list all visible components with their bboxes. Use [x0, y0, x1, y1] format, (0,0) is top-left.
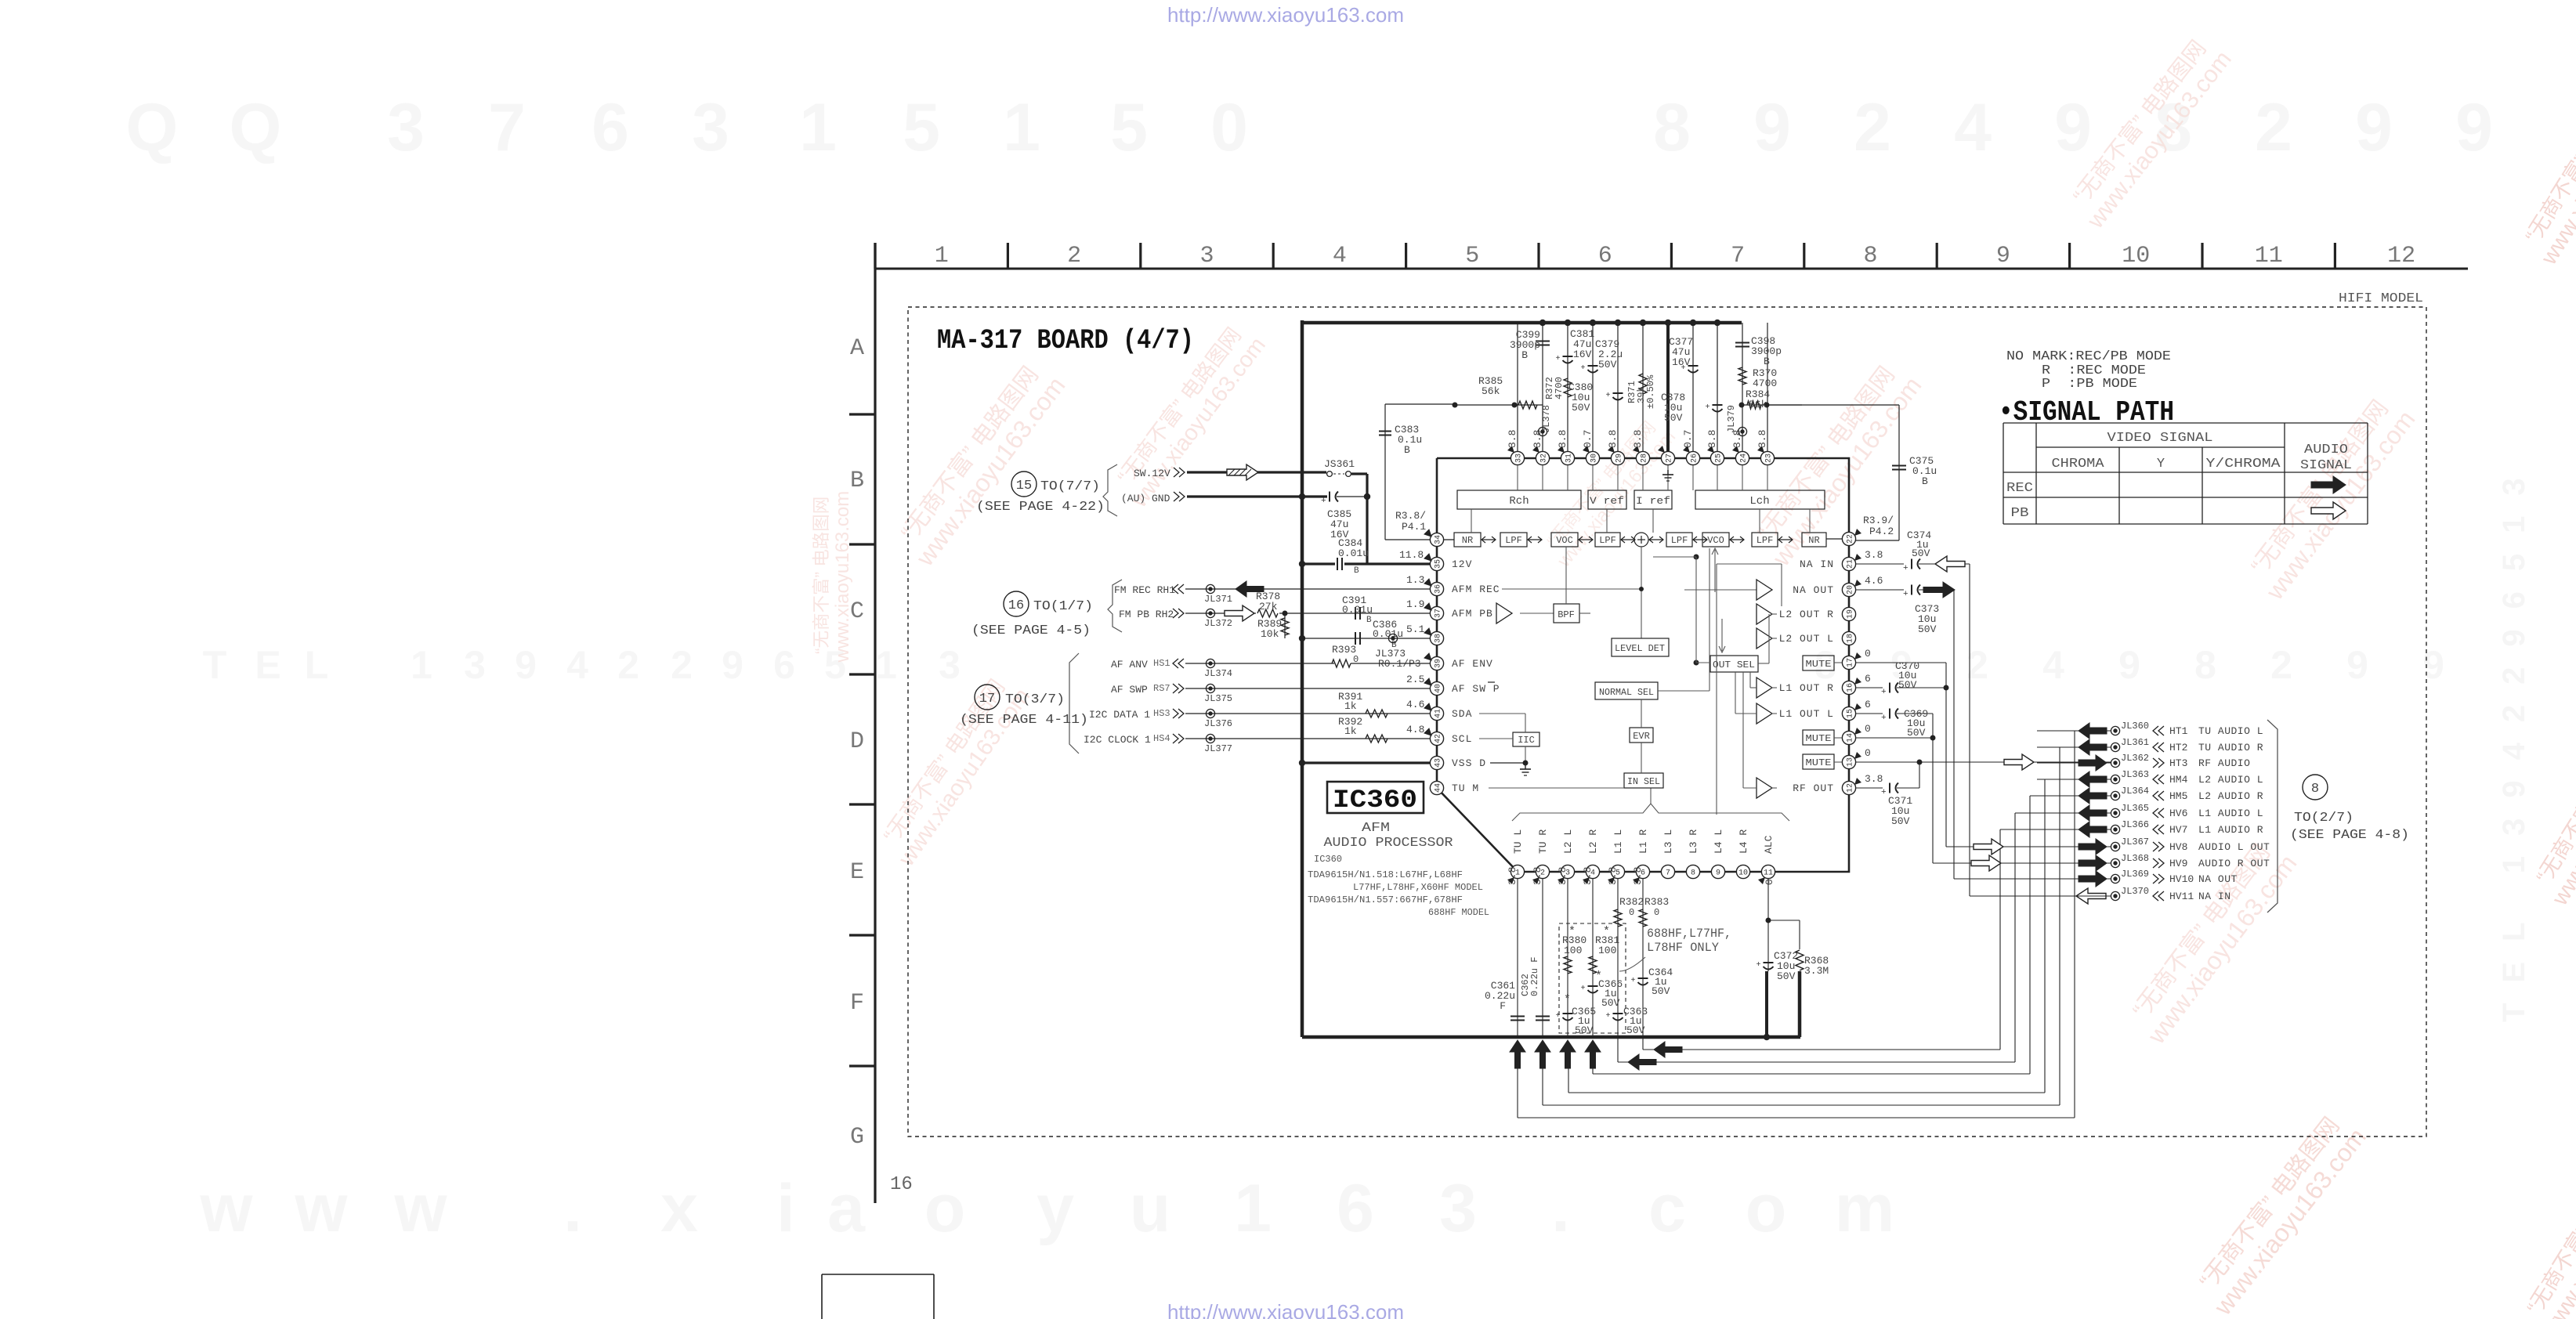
IIC ground: [1525, 746, 1526, 763]
svg-text:D: D: [850, 728, 864, 755]
group 15 circle: [1011, 472, 1037, 497]
svg-text:+: +: [1903, 564, 1908, 573]
svg-text:27k: 27k: [1259, 601, 1278, 613]
svg-text:27: 27: [1666, 454, 1674, 463]
svg-text:50V: 50V: [1572, 402, 1590, 414]
svg-text:100: 100: [1598, 945, 1616, 956]
long verticals NA paths: [1953, 590, 1955, 879]
svg-text:IC360: IC360: [1314, 854, 1342, 865]
svg-text:R3.8/: R3.8/: [1395, 510, 1426, 522]
resistor R368: [1796, 950, 1804, 970]
svg-text:HS4: HS4: [1153, 733, 1170, 744]
svg-text:Q: Q: [126, 90, 179, 165]
svg-text:0.7: 0.7: [1582, 430, 1594, 448]
OUT SEL box: [1710, 656, 1758, 672]
dashed border box: [908, 307, 2426, 1137]
svg-text:21: 21: [1847, 559, 1855, 569]
jack JL373: [1388, 634, 1397, 642]
svg-text:4700: 4700: [1753, 378, 1777, 389]
svg-text:R3.9/: R3.9/: [1863, 515, 1894, 526]
NR2 to pin22 wire: [1826, 538, 1842, 540]
svg-text:18: 18: [1847, 634, 1855, 643]
AFM REC wire: [1502, 588, 1641, 590]
svg-text:39: 39: [1435, 659, 1443, 668]
resistor R372: [1564, 378, 1572, 397]
svg-text:+: +: [1606, 392, 1611, 400]
svg-text:9: 9: [2455, 90, 2493, 165]
svg-text:*: *: [1603, 925, 1610, 938]
BPF to VOC vertical: [1565, 547, 1567, 604]
svg-text:P4.2: P4.2: [1869, 526, 1894, 537]
svg-text:16: 16: [1847, 683, 1855, 692]
svg-text:www.xiaoyu163.com: www.xiaoyu163.com: [832, 491, 853, 663]
svg-text:3.8: 3.8: [1706, 430, 1718, 448]
svg-text:+: +: [1581, 364, 1586, 373]
capacitor C379: [1588, 365, 1598, 367]
svg-text:B: B: [1922, 475, 1928, 487]
svg-text:14: 14: [1847, 733, 1855, 743]
svg-text:9: 9: [722, 643, 743, 687]
bundle wires from pins: [1643, 1049, 2000, 1050]
AFM PB amp: [1496, 603, 1512, 623]
svg-text:HS1: HS1: [1153, 658, 1170, 669]
EVR box: [1630, 728, 1653, 743]
svg-text:+: +: [1706, 403, 1710, 412]
connector JL370 NA IN: [2037, 895, 2111, 897]
resistor R384 row: [1742, 404, 1802, 406]
svg-text:R382: R382: [1619, 896, 1644, 908]
svg-text:0: 0: [1865, 747, 1871, 759]
svg-text:+: +: [1556, 355, 1561, 363]
svg-text:AF ENV: AF ENV: [1452, 658, 1493, 670]
svg-text:16V: 16V: [1672, 356, 1691, 368]
svg-text:OUT SEL: OUT SEL: [1713, 659, 1755, 670]
svg-text:FM REC RH1: FM REC RH1: [1114, 584, 1175, 596]
svg-text:SW.12V: SW.12V: [1134, 468, 1170, 479]
svg-text:AFM: AFM: [1362, 821, 1390, 836]
svg-text:42: 42: [1435, 734, 1443, 743]
svg-text:AFM REC: AFM REC: [1452, 584, 1500, 595]
svg-text:37: 37: [1435, 609, 1443, 618]
svg-text:NO MARK:REC/PB MODE: NO MARK:REC/PB MODE: [2006, 349, 2171, 364]
REC mode solid arrow: [2311, 476, 2346, 493]
svg-text:(SEE PAGE 4-8): (SEE PAGE 4-8): [2290, 828, 2409, 843]
svg-text:TDA9615H/N1.518:L67HF,L68HF: TDA9615H/N1.518:L67HF,L68HF: [1308, 869, 1463, 880]
NR to pin34 wire: [1444, 539, 1454, 540]
svg-text:NA IN: NA IN: [2198, 891, 2231, 902]
thick 12V feed to pin27: [1666, 323, 1670, 451]
IC360 power bus top: [1302, 321, 1742, 325]
AU GND thick wire: [1187, 495, 1327, 497]
svg-text:LEVEL DET: LEVEL DET: [1615, 643, 1665, 654]
pins 33-23 top row: [1511, 451, 1524, 464]
svg-text:19: 19: [1847, 609, 1855, 619]
svg-text:3.8: 3.8: [1557, 430, 1568, 448]
svg-text:3.8: 3.8: [1865, 773, 1883, 785]
bus junction dots: [1539, 320, 1546, 326]
Lch box: [1695, 490, 1825, 509]
svg-text:TO(7/7): TO(7/7): [1040, 479, 1100, 494]
connector JL365 L1 AUDIO L: [2037, 812, 2111, 814]
svg-text:B: B: [1521, 349, 1528, 361]
svg-text:3.8: 3.8: [1507, 430, 1518, 448]
svg-text:HV6: HV6: [2169, 808, 2187, 819]
thin verticals top bank: [1517, 323, 1518, 451]
svg-text:L78HF ONLY: L78HF ONLY: [1647, 941, 1719, 955]
svg-text:17: 17: [979, 692, 995, 706]
svg-text:AF SWP: AF SWP: [1111, 684, 1148, 696]
JL row feeder stubs: [2000, 829, 2111, 830]
svg-text:50V: 50V: [1664, 412, 1683, 424]
svg-text:MUTE: MUTE: [1806, 733, 1832, 744]
svg-text:9: 9: [2355, 90, 2393, 165]
svg-text:7: 7: [1731, 243, 1745, 269]
capacitor C375 branch: [1856, 540, 1899, 541]
svg-text:LPF: LPF: [1599, 535, 1616, 546]
svg-text:28: 28: [1641, 454, 1649, 463]
IC360 label box: [1327, 782, 1424, 813]
svg-text:688HF,L77HF,: 688HF,L77HF,: [1647, 927, 1731, 941]
svg-text:JL370: JL370: [2121, 886, 2149, 897]
mute row wires with caps: [1856, 662, 1946, 663]
svg-text:RF OUT: RF OUT: [1793, 782, 1834, 794]
svg-text:L3 L: L3 L: [1662, 829, 1674, 854]
svg-text:MA-317 BOARD (4/7): MA-317 BOARD (4/7): [937, 325, 1194, 356]
svg-text:0: 0: [1210, 90, 1248, 165]
capacitor C398: [1735, 342, 1749, 344]
svg-text:SIGNAL: SIGNAL: [2300, 458, 2352, 473]
svg-text:HM4: HM4: [2169, 774, 2188, 786]
svg-text:x: x: [660, 1171, 698, 1246]
IC360 bottom bus: [1302, 1035, 1800, 1039]
svg-text:NA OUT: NA OUT: [1793, 584, 1834, 596]
svg-text:6: 6: [1865, 699, 1871, 710]
svg-text:10: 10: [2122, 243, 2150, 269]
capacitor C377: [1688, 365, 1699, 367]
svg-text:HT1: HT1: [2169, 725, 2188, 737]
pins 22-12 right column: [1842, 532, 1855, 545]
svg-text:Q: Q: [230, 90, 282, 165]
processing chain row: [1454, 533, 1481, 547]
svg-text:Rch: Rch: [1509, 495, 1529, 508]
svg-text:HM5: HM5: [2169, 790, 2187, 802]
svg-text:4700: 4700: [1554, 377, 1565, 399]
solid left arrow FM REC: [1236, 581, 1264, 597]
svg-text:I2C CLOCK 1: I2C CLOCK 1: [1084, 734, 1151, 746]
svg-text:C: C: [850, 598, 864, 625]
svg-text:8: 8: [1691, 869, 1695, 878]
svg-text:L2 R: L2 R: [1587, 829, 1599, 854]
V ref box: [1588, 490, 1626, 509]
svg-text:2: 2: [1067, 243, 1081, 269]
svg-text:JL372: JL372: [1204, 618, 1232, 629]
svg-text:TU M: TU M: [1452, 782, 1479, 794]
svg-text:11.8: 11.8: [1399, 549, 1424, 561]
svg-text:3: 3: [387, 90, 425, 165]
svg-text:+: +: [1881, 688, 1887, 697]
svg-text:TEL 13942296513: TEL 13942296513: [2497, 457, 2531, 1022]
svg-text:56k: 56k: [1482, 385, 1500, 397]
title block corner box: [822, 1274, 934, 1275]
svg-text:VSS D: VSS D: [1452, 757, 1486, 769]
svg-text:50V: 50V: [1898, 679, 1917, 691]
connector JL364 L2 AUDIO R: [2037, 795, 2111, 797]
svg-text:26: 26: [1691, 454, 1699, 463]
svg-text:F: F: [850, 990, 864, 1017]
svg-text:NORMAL SEL: NORMAL SEL: [1599, 687, 1654, 698]
circle 8 TO(2/7): [2303, 775, 2328, 800]
capacitor C385: [1329, 492, 1330, 502]
svg-text:HV10: HV10: [2169, 873, 2194, 885]
svg-text:(AU) GND: (AU) GND: [1121, 493, 1170, 504]
svg-text:ALC: ALC: [1763, 835, 1775, 854]
svg-text:B: B: [850, 468, 864, 494]
svg-text:IIC: IIC: [1518, 735, 1535, 746]
svg-text:9: 9: [1753, 90, 1791, 165]
svg-text:2: 2: [617, 643, 639, 687]
svg-text:0.01u: 0.01u: [1342, 604, 1373, 616]
svg-text:c: c: [1648, 1171, 1686, 1246]
svg-text:5.1: 5.1: [1406, 623, 1425, 635]
svg-text:TU AUDIO L: TU AUDIO L: [2198, 725, 2263, 737]
svg-text:E: E: [850, 859, 864, 886]
TU M wire: [1489, 787, 1624, 789]
svg-text:7: 7: [488, 90, 526, 165]
svg-text:AF SW P: AF SW P: [1452, 683, 1500, 695]
resistor R370: [1738, 367, 1746, 385]
svg-text:12: 12: [2387, 243, 2415, 269]
svg-text:50V: 50V: [1575, 1024, 1594, 1036]
svg-text:EVR: EVR: [1633, 731, 1650, 742]
pink watermarks: [889, 356, 1070, 572]
svg-text:HV8: HV8: [2169, 841, 2187, 853]
box stubs to chain: [1471, 509, 1472, 533]
svg-text:T: T: [203, 643, 227, 687]
svg-text:w: w: [200, 1171, 254, 1246]
svg-text:16: 16: [1008, 598, 1024, 613]
svg-text:0: 0: [1353, 654, 1359, 665]
svg-text:B: B: [1764, 356, 1770, 367]
svg-text:w: w: [394, 1171, 448, 1246]
svg-text:0: 0: [1654, 907, 1659, 918]
svg-text:A: A: [850, 335, 864, 362]
svg-text:8: 8: [1653, 90, 1691, 165]
open right arrow FM PB: [1225, 605, 1254, 621]
svg-text:AUDIO L OUT: AUDIO L OUT: [2198, 841, 2270, 853]
svg-text:6: 6: [1598, 243, 1612, 269]
svg-text:JL367: JL367: [2121, 837, 2149, 847]
svg-text:JL364: JL364: [2121, 786, 2149, 797]
svg-text:6: 6: [592, 90, 629, 165]
svg-text:(SEE PAGE 4-5): (SEE PAGE 4-5): [971, 623, 1091, 638]
svg-text:+: +: [1631, 977, 1636, 985]
NA IN inner wire: [1717, 563, 1782, 565]
svg-text:+: +: [1881, 714, 1887, 723]
OUT SEL left wires: [1694, 555, 1699, 560]
svg-text:LPF: LPF: [1671, 535, 1688, 546]
svg-text:TU L: TU L: [1512, 829, 1524, 854]
svg-text:2: 2: [2270, 643, 2292, 687]
svg-text:7: 7: [1666, 869, 1670, 878]
svg-text:30: 30: [1590, 454, 1599, 463]
svg-text:22: 22: [1847, 534, 1855, 544]
svg-text:JL365: JL365: [2121, 803, 2149, 814]
Rch box: [1457, 490, 1581, 509]
svg-text:HT3: HT3: [2169, 757, 2187, 769]
svg-text:50V: 50V: [1626, 1024, 1645, 1036]
svg-text:1: 1: [799, 90, 837, 165]
svg-text:10: 10: [1738, 869, 1748, 878]
svg-text:1: 1: [411, 643, 432, 687]
capacitor C399: [1536, 341, 1550, 342]
connector JL368 AUDIO R OUT: [2037, 862, 2111, 864]
svg-text:NR: NR: [1462, 535, 1473, 546]
svg-text:+: +: [1321, 497, 1326, 506]
svg-text:o: o: [924, 1171, 966, 1246]
svg-text:AUDIO PROCESSOR: AUDIO PROCESSOR: [1324, 836, 1453, 851]
hatched arrow SW12V: [1227, 464, 1258, 480]
PB mode open arrow: [2311, 502, 2346, 519]
svg-text:B: B: [1354, 566, 1359, 576]
svg-text:HV9: HV9: [2169, 858, 2187, 869]
bottom pin wires: [1517, 879, 1518, 1037]
svg-text:B: B: [1404, 444, 1410, 456]
svg-text:1: 1: [1003, 90, 1040, 165]
svg-text:4: 4: [566, 643, 588, 687]
svg-text:3: 3: [1199, 243, 1214, 269]
svg-text:56k: 56k: [1749, 399, 1767, 410]
VCO up arrow: [1714, 550, 1716, 592]
svg-text:NR: NR: [1808, 535, 1819, 546]
group 17 circle: [975, 685, 1000, 710]
svg-text:12: 12: [1847, 783, 1855, 793]
svg-text:50V: 50V: [1918, 623, 1937, 635]
svg-text:AUDIO R OUT: AUDIO R OUT: [2198, 858, 2270, 869]
svg-text:B: B: [1366, 616, 1372, 625]
svg-text:L1 R: L1 R: [1637, 829, 1649, 854]
svg-text:688HF MODEL: 688HF MODEL: [1428, 907, 1489, 918]
svg-text:HS3: HS3: [1153, 708, 1170, 719]
capacitor C364: [1638, 978, 1648, 979]
svg-text:36: 36: [1435, 584, 1443, 594]
svg-text:L1 OUT R: L1 OUT R: [1779, 682, 1834, 694]
jack JL379: [1738, 427, 1746, 435]
svg-text:L: L: [305, 643, 329, 687]
svg-text:JL371: JL371: [1204, 594, 1232, 605]
svg-text:MUTE: MUTE: [1806, 659, 1832, 670]
svg-text:0: 0: [1865, 648, 1871, 659]
svg-text:0: 0: [1764, 879, 1775, 885]
svg-text:w: w: [295, 1171, 349, 1246]
svg-text:50V: 50V: [1777, 970, 1796, 982]
amp RF OUT: [1757, 778, 1772, 798]
group 16 circle: [1004, 591, 1029, 616]
svg-text:32: 32: [1540, 454, 1549, 463]
svg-text:I ref: I ref: [1636, 495, 1670, 507]
gnd below pin27: [1667, 465, 1669, 470]
svg-text:u: u: [1130, 1171, 1171, 1246]
svg-text:3: 3: [464, 643, 486, 687]
svg-text:33: 33: [1515, 454, 1524, 463]
left frame line: [874, 243, 876, 1203]
svg-text:15: 15: [1847, 709, 1855, 718]
sum to level det vertical: [1641, 547, 1642, 638]
svg-text:F: F: [1500, 1000, 1506, 1012]
svg-text:23: 23: [1765, 454, 1774, 463]
svg-text:TDA9615H/N1.557:667HF,678HF: TDA9615H/N1.557:667HF,678HF: [1308, 894, 1463, 905]
amp L2 OUT R: [1757, 604, 1772, 624]
svg-text:41: 41: [1435, 709, 1443, 718]
svg-text:CHROMA: CHROMA: [2052, 457, 2105, 472]
resistor R389: [1284, 613, 1286, 638]
svg-text:4.6: 4.6: [1406, 699, 1424, 710]
svg-text:JL379: JL379: [1726, 405, 1737, 433]
capacitor C386: [1355, 632, 1356, 645]
ruler ticks: [874, 243, 876, 269]
SW12V thick wire: [1187, 471, 1326, 473]
amp NA OUT: [1757, 580, 1772, 600]
svg-text:PB: PB: [2011, 506, 2029, 521]
connector JL367 AUDIO L OUT: [2037, 846, 2111, 847]
svg-text:.: .: [1551, 1171, 1570, 1246]
svg-text:JL368: JL368: [2121, 853, 2149, 864]
up arrows into gnd bus: [1510, 1040, 1525, 1068]
svg-text:L2 L: L2 L: [1562, 829, 1574, 854]
svg-text:Lch: Lch: [1749, 495, 1769, 508]
group 16 brace: [1108, 580, 1122, 632]
svg-text:1: 1: [875, 643, 897, 687]
svg-text:m: m: [1835, 1171, 1894, 1246]
svg-text:NA IN: NA IN: [1800, 558, 1834, 570]
svg-text:Y/CHROMA: Y/CHROMA: [2206, 457, 2281, 472]
svg-text:JL360: JL360: [2121, 721, 2149, 732]
svg-text:+: +: [1757, 961, 1761, 970]
svg-text:+: +: [1556, 1012, 1561, 1021]
svg-text:17: 17: [1847, 658, 1855, 667]
wire R384 to right: [1767, 404, 1899, 406]
svg-text:8: 8: [2194, 643, 2216, 687]
svg-text:3.8: 3.8: [1865, 549, 1883, 561]
svg-text:40: 40: [1435, 684, 1443, 693]
svg-text:50V: 50V: [1907, 727, 1926, 739]
svg-text:JL362: JL362: [2121, 753, 2149, 764]
svg-text:9: 9: [1716, 869, 1720, 878]
jumper jack JL378: [1538, 427, 1547, 435]
capacitor C381: [1563, 356, 1573, 357]
svg-text:JL377: JL377: [1204, 743, 1232, 754]
svg-text:2.5: 2.5: [1406, 674, 1424, 685]
svg-text:9: 9: [2422, 643, 2444, 687]
bus corner right: [1798, 971, 1802, 1037]
capacitor C374 NA IN: [1856, 563, 1904, 565]
pin13 long wire to JL362: [1856, 761, 2111, 763]
svg-text:12V: 12V: [1452, 558, 1472, 570]
svg-text:4.8: 4.8: [1406, 724, 1424, 735]
EVR vertical wires: [1641, 699, 1642, 728]
capacitor C384 on 12V row: [1302, 562, 1335, 565]
svg-text:SCL: SCL: [1452, 733, 1472, 745]
svg-text:1.3: 1.3: [1406, 574, 1424, 586]
svg-text:y: y: [1037, 1171, 1074, 1246]
top ruler line: [875, 268, 2468, 270]
svg-text:P :PB MODE: P :PB MODE: [2042, 377, 2137, 392]
pins 1-11 bottom row: [1511, 865, 1524, 878]
svg-text:i: i: [776, 1171, 795, 1246]
svg-text:8: 8: [2311, 782, 2319, 797]
left arrows on bundle: [1654, 1042, 1682, 1057]
svg-text:50V: 50V: [1891, 815, 1910, 827]
capacitor C391: [1355, 607, 1356, 620]
